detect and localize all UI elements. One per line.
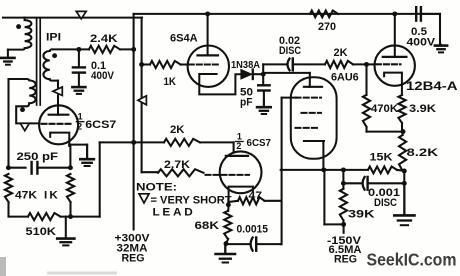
tube U3 6AU6 envelope	[291, 77, 337, 159]
svg-text:NOTE:: NOTE:	[136, 182, 177, 194]
wire cathode to bias ground	[69, 145, 87, 159]
wire -150V stub	[343, 224, 345, 232]
svg-text:270: 270	[318, 21, 336, 33]
wire rail B (+300V top rail, y=13.9)	[134, 13, 440, 15]
resistor R 470K	[363, 95, 370, 127]
node dot row131	[401, 129, 406, 134]
svg-text:6CS7: 6CS7	[247, 138, 272, 149]
label 0.02	[279, 35, 300, 47]
tube U1 grid (dashed)	[42, 123, 71, 125]
resistor R 8.2K	[399, 135, 406, 171]
wire screen riser	[281, 98, 283, 245]
svg-text:SeekIC.com: SeekIC.com	[367, 250, 457, 270]
label 47	[249, 190, 263, 202]
label 270	[318, 21, 336, 33]
resistor R 1K cathode	[67, 174, 74, 202]
svg-text:400V: 400V	[91, 70, 115, 82]
svg-text:2.4K: 2.4K	[90, 33, 118, 45]
ground right column	[394, 183, 414, 225]
svg-text:REG: REG	[334, 254, 357, 266]
transformer secondary 1 (IPI plate winding)	[43, 49, 58, 80]
transformer primary winding	[8, 18, 32, 50]
transformer secondary 2 (grid winding)	[9, 79, 40, 123]
tube U1 cathode	[50, 133, 69, 145]
node dot F 0.001 right	[402, 181, 407, 186]
svg-text:0.0015: 0.0015	[237, 224, 269, 236]
label 1/2 fraction U5	[236, 132, 243, 151]
node dot 2K mid on V1	[131, 140, 136, 145]
label 1/2 fraction U1	[76, 112, 83, 132]
wire 2K to grid node	[353, 63, 367, 65]
wire primary to ground	[7, 49, 9, 51]
label 6S4A	[170, 32, 198, 44]
polarity dot primary	[16, 24, 21, 29]
capacitor C 0.0015	[226, 238, 281, 251]
label 15K	[370, 152, 393, 164]
ground primary	[1, 50, 14, 65]
wire 2K mid row	[100, 142, 234, 156]
tube U5 plate	[226, 155, 248, 157]
resistor R 47K	[5, 174, 12, 202]
wire screen lead	[282, 97, 296, 99]
node dot 250pF right	[68, 165, 73, 170]
label NOTE:	[136, 182, 177, 194]
wire cathode row 131	[367, 123, 404, 135]
label IK	[44, 190, 60, 202]
label 2.7K	[164, 159, 190, 171]
tube U1 plate	[49, 106, 69, 115]
svg-text:1K: 1K	[164, 76, 177, 88]
svg-text:6S4A: 6S4A	[170, 32, 198, 44]
wire 39K bottom	[342, 220, 344, 224]
tube U3 cathode	[304, 141, 324, 170]
svg-text:470K: 470K	[371, 103, 398, 115]
resistor R 1K grid	[150, 61, 181, 68]
label -150V	[327, 235, 362, 247]
node dot 0.0015 branch	[224, 241, 229, 246]
wire 47 row	[228, 201, 280, 202]
svg-text:47K: 47K	[15, 190, 37, 202]
node dot B 39K top	[341, 167, 346, 172]
very-short-lead marker on rail A	[76, 11, 86, 19]
wire bias row riser	[99, 142, 101, 216]
node dot A 6AU6 cathode	[321, 167, 326, 172]
wire right ground column	[403, 171, 405, 215]
watermark SeekIC.com	[367, 250, 457, 270]
node dot 2.4K to V1	[131, 47, 136, 52]
node dot 12B4A plate rail	[392, 11, 397, 16]
svg-text:DISC: DISC	[374, 197, 397, 209]
ground 68K	[216, 246, 235, 263]
label 8.2K	[407, 147, 439, 159]
tube U2 cathode	[199, 74, 241, 94]
tube U1 1/2 6CS7 envelope	[39, 105, 78, 144]
wire rail A (transformer primary supply rail, y=17.6)	[3, 17, 142, 19]
wire cathode down to 250pF node	[69, 145, 70, 168]
tube U2 grid (dashed)	[189, 63, 220, 65]
label 39K	[348, 209, 375, 221]
ground 50pF	[257, 100, 271, 114]
node dot E 8.2K bottom	[402, 169, 407, 174]
tube U4 grid (dashed)	[376, 63, 401, 65]
resistor R 2.4K	[89, 46, 120, 53]
tube U2 plate	[198, 14, 219, 56]
svg-text:250 pF: 250 pF	[17, 151, 59, 163]
tube U3 grid1 (dashed)	[296, 127, 319, 129]
capacitor C 0.1	[73, 67, 85, 72]
label 50	[240, 87, 253, 99]
resistor R 2K top	[325, 61, 353, 68]
svg-text:1: 1	[78, 112, 83, 122]
wire vertical bus V2 (oscillator signal, x=141.6)	[141, 18, 143, 173]
label 250 pF	[17, 151, 59, 163]
svg-text:LEAD: LEAD	[153, 207, 196, 219]
wire secondary 2 to grid-leak node	[7, 79, 9, 168]
svg-text:510K: 510K	[26, 226, 57, 238]
svg-text:IK: IK	[44, 190, 60, 202]
node dot 0.1-cap junction	[76, 47, 81, 52]
ground 0.1 cap	[72, 73, 85, 94]
label LEAD	[153, 207, 196, 219]
label VERY SHORT	[151, 195, 232, 207]
label 1N38A	[231, 60, 261, 71]
label 0.001	[368, 187, 400, 199]
label 0.0015	[237, 224, 269, 236]
wire 1K bottom row	[61, 202, 100, 217]
label IPI	[46, 31, 61, 43]
capacitor C 250pF	[8, 162, 70, 174]
label 3.9K	[409, 103, 436, 115]
tube U3 grid3 (dashed)	[296, 97, 322, 99]
svg-text:2.7K: 2.7K	[164, 159, 190, 171]
label 400V	[91, 70, 115, 82]
tube U3 plate	[304, 86, 322, 88]
wire secondary1 top row	[52, 48, 134, 50]
tube U4 12B4-A envelope	[375, 45, 415, 85]
node dot C 0.001 left	[341, 181, 346, 186]
label 6CS7 U5	[247, 138, 272, 149]
svg-text:39K: 39K	[348, 209, 375, 221]
label 6.5MA	[329, 244, 362, 256]
svg-text:400V: 400V	[407, 37, 436, 49]
resistor R 3.9K	[398, 95, 405, 123]
label 47K	[15, 190, 37, 202]
label DISC	[279, 45, 301, 57]
label +300V	[115, 233, 151, 245]
wire 39K column	[342, 170, 344, 189]
node dot bottom row	[68, 214, 73, 219]
label 2K top	[334, 47, 348, 59]
wire 1K grid leads	[142, 63, 189, 65]
label 6AU6	[331, 72, 359, 84]
scan smudge bottom left	[0, 257, 117, 276]
very-short-lead marker on grid wire	[20, 123, 29, 130]
resistor R 2.7K	[158, 169, 204, 176]
svg-text:68K: 68K	[195, 220, 220, 232]
resistor R 47	[238, 197, 265, 204]
resistor R 510K	[28, 213, 61, 220]
note triangle glyph	[139, 194, 149, 203]
label 400V right	[407, 37, 436, 49]
polarity dot secondary 1	[52, 53, 57, 58]
wire bias drop to -150V	[324, 170, 343, 225]
label REG left	[122, 253, 145, 265]
resistor R 68K	[224, 211, 231, 239]
very-short-lead marker on bus V2	[138, 96, 147, 105]
ground cathode U1	[80, 145, 94, 166]
capacitor C 0.02 DISC	[288, 59, 293, 71]
diode D1 1N38A	[241, 70, 263, 80]
svg-text:2K: 2K	[170, 124, 185, 136]
wire cathode to 68K	[227, 205, 229, 211]
node dot 1K grid on V2	[139, 62, 144, 67]
label pF	[240, 97, 253, 109]
svg-text:6AU6: 6AU6	[331, 72, 359, 84]
svg-text:6CS7: 6CS7	[85, 119, 116, 131]
wire secondary1 bottom to plate	[57, 81, 59, 115]
ground 510K row	[57, 217, 74, 246]
resistor R 2K mid	[164, 139, 200, 146]
node dot 47 branch	[226, 202, 231, 207]
wire N1 to 6AU6 plate	[263, 72, 310, 74]
capacitor C 0.5 400V	[416, 7, 440, 45]
wire 0.02 to 2K	[293, 63, 325, 65]
resistor R 270	[310, 11, 338, 18]
tube U3 plate lead	[309, 73, 311, 87]
svg-text:1N38A: 1N38A	[231, 60, 261, 71]
svg-text:8.2K: 8.2K	[407, 147, 439, 159]
wire 15K to 8.2K	[397, 170, 404, 171]
very-short-lead marker on plate lead	[53, 87, 62, 96]
wire 2.7K row	[142, 171, 158, 173]
svg-text:47: 47	[249, 190, 263, 202]
wire N2 to 470K	[365, 64, 367, 94]
node dot 250pF left	[6, 165, 11, 170]
transformer core	[37, 18, 41, 105]
tube U5 grid (dashed)	[206, 174, 250, 176]
node dot N2 12B4A grid	[364, 62, 369, 67]
label 1K grid	[164, 76, 177, 88]
label 0.5	[411, 26, 427, 38]
node dot detector N1	[261, 72, 266, 77]
label REG right	[334, 254, 357, 266]
svg-text:REG: REG	[122, 253, 145, 265]
resistor R 39K	[340, 189, 347, 221]
svg-text:2K: 2K	[334, 47, 348, 59]
label 32MA	[117, 243, 148, 255]
label 510K	[26, 226, 57, 238]
wire 15K row	[281, 169, 368, 171]
resistor R 15K	[368, 167, 397, 174]
tube U4 plate	[383, 14, 407, 57]
capacitor C 50pF	[258, 74, 269, 106]
svg-text:15K: 15K	[370, 152, 393, 164]
tube U2 6S4A envelope	[188, 45, 229, 86]
tube U5 1/2 6CS7 envelope	[220, 151, 262, 193]
tube U3 grid2 (dashed)	[302, 112, 322, 114]
label 6CS7 U1	[85, 119, 116, 131]
svg-text:3.9K: 3.9K	[409, 103, 436, 115]
label 2.4K	[90, 33, 118, 45]
tube U5 cathode	[229, 187, 253, 206]
svg-text:2: 2	[236, 141, 241, 151]
polarity dot secondary 2	[20, 107, 25, 112]
label 470K	[371, 103, 398, 115]
svg-text:12B4-A: 12B4-A	[406, 79, 458, 93]
svg-text:DISC: DISC	[279, 45, 301, 57]
ground 0.5 cap	[435, 45, 447, 53]
wire 68K bottom	[225, 239, 228, 253]
node dot 6S4A plate on rail B	[205, 11, 210, 16]
svg-text:= VERY SHORT: = VERY SHORT	[151, 195, 232, 207]
wire N2 to tube	[367, 63, 376, 65]
label 12B4-A	[406, 79, 458, 93]
tube U4 cathode	[384, 73, 402, 95]
svg-text:pF: pF	[240, 97, 253, 109]
svg-text:IPI: IPI	[46, 31, 61, 43]
wire N1 up to 0.02 branch	[263, 64, 286, 74]
capacitor 0.1 400V lead	[78, 49, 80, 67]
label 68K	[195, 220, 220, 232]
wire vertical bus V1 (+300V feed, x=133.6)	[133, 14, 135, 230]
label DISC 0.001	[374, 197, 397, 209]
svg-text:2: 2	[77, 121, 82, 131]
wire 47K bottom	[9, 202, 29, 217]
label 0.1	[91, 60, 106, 72]
node dot D -150V	[341, 222, 346, 227]
capacitor C 0.001 DISC	[343, 177, 404, 190]
label 2K mid	[170, 124, 185, 136]
